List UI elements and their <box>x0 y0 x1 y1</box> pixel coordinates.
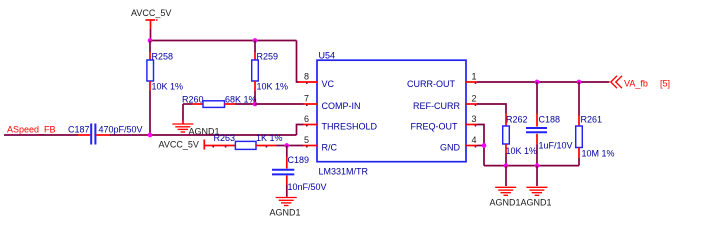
svg-text:6: 6 <box>304 114 309 124</box>
wire R260 to ground <box>182 104 184 124</box>
svg-text:1K 1%: 1K 1% <box>256 133 283 143</box>
svg-text:4: 4 <box>472 135 477 145</box>
ground label AGND1 (under C189) <box>270 207 301 217</box>
ground AGND1 (right of pair) <box>526 187 547 195</box>
svg-text:R262: R262 <box>506 114 528 124</box>
svg-text:AGND1AGND1: AGND1AGND1 <box>490 197 552 207</box>
wire top rail <box>150 40 297 42</box>
svg-text:R259: R259 <box>257 51 279 61</box>
pin-end markers <box>212 82 476 147</box>
wire ASpeed_FB to C187 <box>4 134 78 136</box>
ground labels AGND1AGND1 <box>490 197 552 207</box>
pin 3 FREQ-OUT <box>411 114 478 132</box>
junction dot at R259 top <box>253 38 258 43</box>
svg-text:REF-CURR: REF-CURR <box>413 101 460 111</box>
resistor R261 <box>576 114 615 165</box>
capacitor C189 <box>272 146 327 197</box>
svg-text:7: 7 <box>304 94 309 104</box>
junction dot at R258 top <box>148 38 153 43</box>
svg-text:FREQ-OUT: FREQ-OUT <box>411 122 458 132</box>
net label VA_fb <box>624 78 648 88</box>
power symbol AVCC_5V (lower) <box>159 140 214 150</box>
svg-text:1uF/10V: 1uF/10V <box>539 140 573 150</box>
wire pin3 down <box>477 125 484 166</box>
svg-text:10K 1%: 10K 1% <box>257 81 289 91</box>
wire pin2 to R262 <box>477 104 506 114</box>
svg-text:LM331M/TR: LM331M/TR <box>319 166 369 176</box>
net label ASpeed_FB <box>7 124 56 134</box>
junction dot C188 top <box>535 80 540 85</box>
svg-text:[5]: [5] <box>660 78 670 88</box>
wire power stem <box>150 29 152 41</box>
resistor R260 <box>182 94 257 107</box>
svg-text:R263: R263 <box>214 133 236 143</box>
junction dot rail/R262 <box>504 163 509 168</box>
wire pin4 <box>477 145 484 147</box>
ground AGND1 (under C189) <box>276 198 297 206</box>
power symbol AVCC_5V (top) <box>146 19 158 29</box>
svg-text:U54: U54 <box>319 51 336 61</box>
pin 5 R/C <box>303 135 338 153</box>
svg-text:AVCC_5V: AVCC_5V <box>159 140 199 150</box>
svg-text:68K 1%: 68K 1% <box>225 94 257 104</box>
svg-text:10M 1%: 10M 1% <box>582 148 615 158</box>
pin 2 REF-CURR <box>413 94 477 112</box>
svg-text:COMP-IN: COMP-IN <box>322 101 361 111</box>
wire rail to ground 1 <box>505 166 507 186</box>
resistor R263 <box>213 133 304 149</box>
wire bottom rail <box>484 165 579 167</box>
wire to pin 7 <box>255 103 304 105</box>
svg-text:C188: C188 <box>539 114 561 124</box>
ground label AGND1 (under R260) <box>189 126 220 136</box>
pin 7 COMP-IN <box>303 94 361 112</box>
wire pin1 net to R261 <box>578 82 580 116</box>
junction dot R259/R260/pin7 <box>253 102 258 107</box>
svg-text:C189: C189 <box>288 155 310 165</box>
wire rail to ground 2 <box>536 166 538 186</box>
svg-text:2: 2 <box>472 94 477 104</box>
net label AVCC_5V (top) <box>131 8 171 18</box>
resistor R258 <box>147 41 183 136</box>
svg-text:5: 5 <box>304 135 309 145</box>
pin 4 GND <box>440 135 477 153</box>
svg-text:VC: VC <box>322 79 335 89</box>
wire C187 to threshold elbow <box>110 134 297 136</box>
svg-text:ASpeed_FB: ASpeed_FB <box>7 124 56 134</box>
op-amp U54 body <box>317 51 466 177</box>
ground AGND1 (under R260) <box>172 124 193 132</box>
pin 6 THRESHOLD <box>303 114 378 132</box>
junction dot C187/R258 <box>148 133 153 138</box>
svg-text:10K 1%: 10K 1% <box>152 81 184 91</box>
svg-text:8: 8 <box>304 72 309 82</box>
junction dot rail/C188 <box>535 163 540 168</box>
wire rail to pin 8 <box>297 41 300 83</box>
capacitor C187 <box>68 124 143 145</box>
svg-text:10K 1%: 10K 1% <box>506 146 538 156</box>
pin 1 CURR-OUT <box>407 72 477 90</box>
svg-text:R261: R261 <box>581 114 603 124</box>
wire riser to pin 6 <box>297 125 304 136</box>
svg-text:AVCC_5V: AVCC_5V <box>131 8 171 18</box>
junction dot R261 top <box>577 80 582 85</box>
ground AGND1 (left of pair) <box>495 187 516 195</box>
wire pin1 output net <box>477 81 610 83</box>
svg-text:1: 1 <box>472 72 477 82</box>
svg-text:GND: GND <box>440 143 461 153</box>
svg-text:AGND1: AGND1 <box>270 207 301 217</box>
pin 8 VC <box>298 72 335 90</box>
sheet ref [5] <box>660 78 670 88</box>
svg-text:R260: R260 <box>182 94 204 104</box>
svg-text:R/C: R/C <box>322 143 338 153</box>
resistor R262 <box>503 114 537 166</box>
junction dot pin3/pin4 <box>482 143 487 148</box>
svg-text:3: 3 <box>472 114 477 124</box>
wire pin1 net to C188 <box>536 82 538 114</box>
capacitor C188 <box>526 114 573 166</box>
svg-text:C187: C187 <box>68 125 90 135</box>
svg-text:CURR-OUT: CURR-OUT <box>407 79 455 89</box>
svg-text:VA_fb: VA_fb <box>624 78 648 88</box>
svg-text:R258: R258 <box>152 51 174 61</box>
junction dot R263/C189/pin5 <box>284 143 289 148</box>
resistor R259 <box>252 41 288 105</box>
svg-text:470pF/50V: 470pF/50V <box>99 125 143 135</box>
off-page connector VA_fb <box>611 76 622 88</box>
svg-text:10nF/50V: 10nF/50V <box>288 182 327 192</box>
svg-text:THRESHOLD: THRESHOLD <box>322 122 378 132</box>
